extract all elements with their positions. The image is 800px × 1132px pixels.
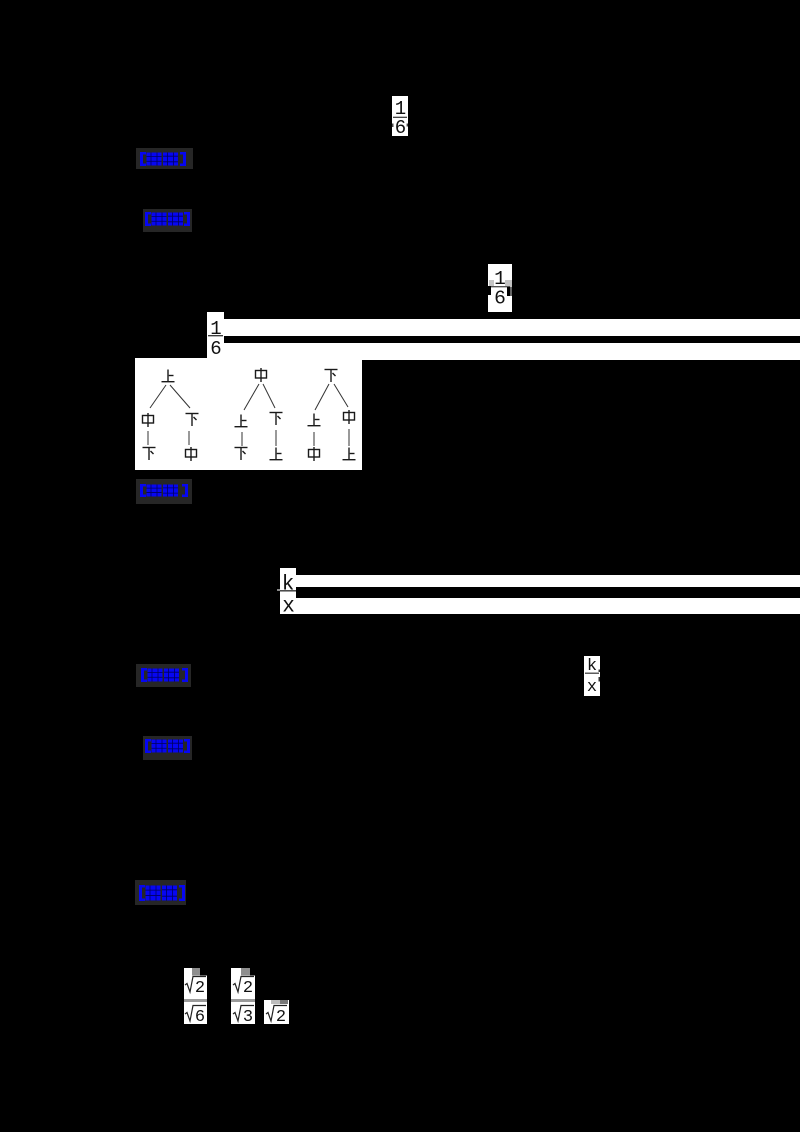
svg-text:k: k [282, 574, 295, 597]
svg-text:x: x [587, 678, 597, 696]
svg-text:x: x [282, 596, 295, 615]
svg-text:3: 3 [243, 1008, 253, 1024]
svg-text:1: 1 [210, 318, 221, 340]
svg-text:6: 6 [195, 1008, 205, 1024]
svg-text:6: 6 [395, 117, 406, 136]
svg-text:6: 6 [494, 288, 506, 310]
svg-text:2: 2 [243, 979, 253, 998]
svg-text:2: 2 [195, 979, 205, 998]
svg-text:6: 6 [210, 338, 221, 358]
svg-text:2: 2 [276, 1008, 286, 1024]
